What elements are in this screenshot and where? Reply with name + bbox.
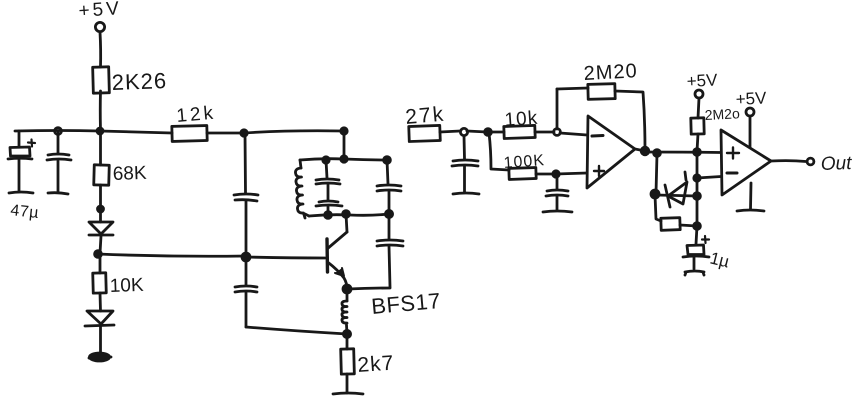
wire tank bottom rail: [309, 214, 389, 216]
svg-text:Out: Out: [820, 153, 852, 175]
resistor R2 68K: [94, 163, 148, 185]
transistor Q1 BFS17: [327, 232, 442, 319]
wire +5V to U2 top: [749, 116, 752, 148]
node D (bias line junction): [95, 251, 102, 258]
wire D2 to ground: [99, 326, 102, 354]
wire R5 to ground: [346, 374, 349, 393]
svg-text:+5V: +5V: [686, 70, 718, 91]
node M (tank bottom right): [385, 210, 392, 217]
wire U2 bottom to ground: [749, 183, 752, 209]
wire bias line to oscillator (long horizontal): [98, 254, 246, 256]
wire R2 to D1: [99, 185, 102, 222]
svg-text:10k: 10k: [504, 108, 539, 131]
ground for C9: [543, 211, 572, 212]
node A (rail / C1 junction, ring): [55, 128, 62, 135]
ground for C47: [9, 192, 33, 193]
node Q (split to R7/R8): [485, 129, 492, 136]
node L (tank bottom / collector): [343, 211, 350, 218]
capacitor C10 1u electrolytic: [683, 236, 732, 272]
wire D1 to bias line: [100, 236, 101, 253]
resistor R6 27k: [404, 103, 446, 142]
capacitor C3 (below node G): [235, 259, 257, 327]
svg-text:+5V: +5V: [735, 88, 767, 109]
node S (non-inverting input junction): [553, 171, 559, 177]
wire rail to C47 electrolytic: [18, 131, 21, 147]
svg-text:2M2o: 2M2o: [704, 105, 740, 123]
capacitor C7 (feedback to emitter): [377, 240, 403, 287]
inductor L1 (tank coil): [295, 160, 309, 218]
wire output node to U2 plus input: [645, 151, 721, 154]
ground below U2: [737, 210, 764, 211]
ground for C1: [48, 193, 68, 194]
wire node O to R5: [346, 334, 349, 349]
node P (ring junction after R6): [460, 128, 467, 135]
wire feedback right segment down to output node: [615, 91, 645, 150]
capacitor C5 (tank divider lower): [316, 201, 342, 214]
wire node L to Q1 collector: [346, 214, 347, 232]
ground for C8: [453, 193, 479, 194]
node W (limiter left): [651, 190, 659, 198]
wire R8 to node S: [536, 173, 556, 176]
resistor R3 10K: [93, 273, 145, 297]
inductor L2 (emitter choke): [342, 289, 347, 334]
wire C7 to emitter node: [348, 288, 390, 289]
svg-text:100K: 100K: [503, 152, 545, 172]
wire U2 output: [771, 159, 806, 163]
svg-text:12k: 12k: [176, 103, 217, 127]
node R (inverting input junction, ring): [554, 129, 561, 136]
resistor R11 2M20: [691, 105, 741, 134]
svg-text:10K: 10K: [109, 275, 144, 297]
wire U1 output to apex: [635, 149, 645, 151]
node Y (R10 right junction): [694, 223, 701, 230]
wire R3 to D2: [99, 293, 102, 311]
capacitor C9 (below node S): [546, 175, 568, 210]
wire R6 to node P: [440, 131, 460, 132]
wire limiter horizontal (through diode): [656, 195, 697, 196]
wire node F down to tank top rail: [343, 131, 346, 158]
node X (diode right junction): [694, 193, 701, 200]
resistor R7 10k: [504, 108, 539, 139]
wire node Q down to R8: [489, 133, 509, 170]
node O (emitter resistor junction): [343, 330, 350, 337]
capacitor C47 47u electrolytic: [8, 140, 40, 222]
wire node E down to C2: [244, 133, 247, 193]
node N (emitter node): [343, 285, 351, 293]
wire node D to R3: [99, 254, 102, 273]
wire node G to Q1 base: [246, 257, 325, 258]
svg-text:+5V: +5V: [78, 0, 123, 22]
wire tank middle branch upper: [326, 160, 327, 178]
node T (U1 output node): [641, 147, 649, 155]
node V (2M20b / vertical line junction): [694, 149, 701, 156]
node C (above D1): [98, 206, 104, 212]
wire node U down to limiter: [656, 154, 657, 193]
wire node Q to R7: [488, 131, 504, 134]
node B (rail / R1 / R2 junction): [97, 128, 103, 134]
node E (rail / C2 junction): [241, 130, 247, 136]
wire vertical node V to node X to node Y: [696, 152, 697, 244]
terminal Out: [807, 153, 852, 175]
wire node P to C8: [463, 136, 466, 159]
wire rail node E to node F: [244, 131, 344, 133]
resistor R5 2k7: [341, 349, 395, 377]
node G (base bias junction): [242, 253, 250, 261]
node F (rail / tank junction): [341, 128, 347, 134]
power +5V terminal (above R11): [686, 70, 718, 98]
wire node M to C7: [388, 214, 391, 239]
ground below R5: [333, 393, 363, 394]
diode D3 (limiter): [665, 172, 687, 207]
resistor R9 2M20 (feedback): [583, 60, 638, 99]
wire +5V terminal to R1: [99, 32, 102, 67]
svg-text:2M20: 2M20: [583, 60, 638, 85]
node I (tank top / rail): [341, 156, 347, 162]
node Z (minus input tap): [694, 175, 700, 181]
svg-text:BFS17: BFS17: [370, 288, 442, 319]
power +5V terminal (above U2): [735, 88, 767, 116]
diode D1: [89, 222, 113, 235]
wire node S to U1 non-inverting input: [556, 173, 587, 174]
wire R1 to main rail: [99, 91, 102, 130]
node H (tank top / C4 branch): [323, 157, 329, 163]
capacitor C2: [234, 194, 258, 255]
op-amp U2: [721, 130, 771, 195]
resistor R10 (limiter): [661, 218, 680, 231]
diode D2: [85, 311, 114, 326]
wire feedback top left segment: [557, 88, 588, 89]
capacitor C8: [452, 160, 478, 192]
svg-text:27k: 27k: [404, 103, 446, 129]
resistor R4 12k: [172, 103, 217, 142]
power +5V terminal top-left: [78, 0, 123, 32]
wire +5V to R11: [698, 98, 699, 118]
wire rail to R2: [99, 131, 102, 165]
node J (tank top right): [384, 157, 391, 164]
wire main rail left section: [15, 131, 172, 134]
wire node P to node Q: [467, 131, 487, 132]
wire R11 to node V: [697, 134, 698, 151]
wire tank right branch upper: [387, 160, 388, 184]
ground for C10: [685, 271, 704, 275]
capacitor C4 (tank divider upper): [316, 179, 340, 200]
svg-text:1µ: 1µ: [708, 248, 731, 271]
resistor R8 100k: [503, 152, 545, 179]
wire node R to U1 inverting input: [560, 133, 587, 135]
node K (tank bottom / divider): [325, 212, 332, 219]
capacitor C1 (left, to ground): [47, 131, 71, 192]
svg-text:68K: 68K: [112, 163, 147, 185]
ground blob bottom-left: [89, 353, 111, 361]
wire node W down to R10: [655, 195, 661, 221]
resistor R1 2K26: [93, 67, 168, 95]
wire node X to U2 inverting input: [697, 177, 721, 179]
wire R7 to node R: [535, 131, 554, 134]
wire R10 to node Y: [680, 225, 697, 226]
wire tank top rail: [300, 159, 388, 160]
node U (branch to limiter): [654, 150, 661, 157]
capacitor C6 (tank right): [377, 185, 401, 213]
wire R4 to node E: [207, 132, 244, 135]
op-amp U1: [587, 116, 635, 188]
svg-text:47µ: 47µ: [10, 202, 40, 222]
wire node R up to feedback: [556, 89, 559, 129]
svg-text:2K26: 2K26: [111, 68, 167, 95]
wire C3 to emitter resistor junction: [246, 327, 347, 334]
svg-text:2k7: 2k7: [357, 351, 395, 377]
